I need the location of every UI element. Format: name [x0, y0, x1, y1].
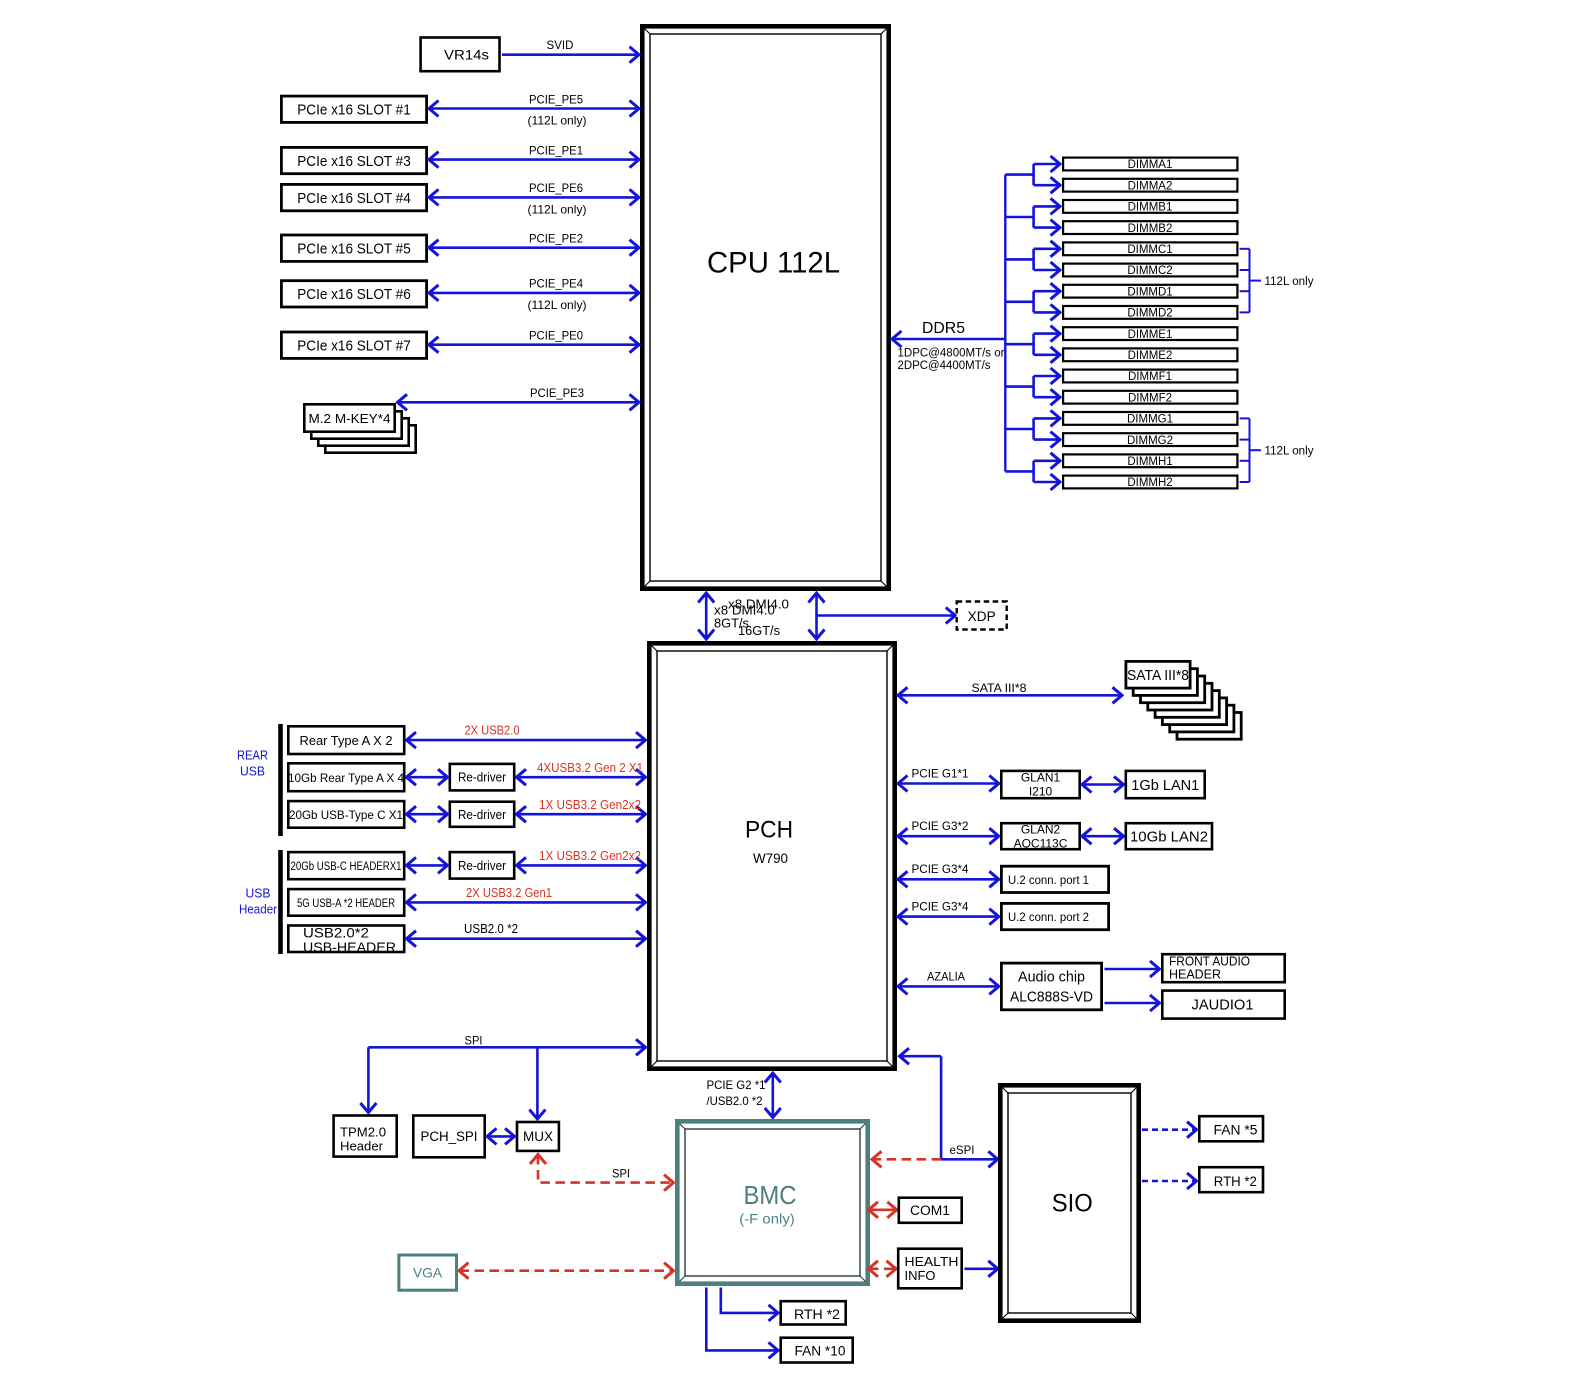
box DIMMA1 [1063, 158, 1237, 171]
svg-text:PCIE G1*1: PCIE G1*1 [912, 766, 969, 780]
box PCIe x16 SLOT #3 [281, 147, 426, 173]
svg-text:SPI: SPI [612, 1167, 630, 1181]
svg-text:REAR: REAR [237, 749, 268, 763]
wire PCIE G3*4 port2 [899, 915, 999, 918]
wire VGA-BMC [460, 1269, 674, 1272]
svg-text:DIMMF2: DIMMF2 [1128, 392, 1172, 404]
wire GLAN1-LAN1 [1083, 783, 1124, 786]
svg-text:PCIe x16 SLOT #5: PCIe x16 SLOT #5 [297, 241, 411, 258]
svg-text:DIMMB1: DIMMB1 [1128, 202, 1173, 214]
svg-text:2X USB2.0: 2X USB2.0 [465, 723, 520, 737]
wire SPI [368, 1046, 645, 1049]
svg-text:AZALIA: AZALIA [927, 969, 965, 983]
svg-text:DIMMG2: DIMMG2 [1127, 435, 1173, 447]
bracket 112L only [1240, 248, 1250, 250]
wire 1X USB3.2 Gen2x2 header [407, 864, 447, 867]
svg-text:DIMMC1: DIMMC1 [1127, 244, 1172, 256]
wire USB2.0 *2 [407, 937, 645, 940]
svg-text:1X USB3.2 Gen2x2: 1X USB3.2 Gen2x2 [539, 849, 641, 863]
svg-text:x8 DMI4.0: x8 DMI4.0 [714, 604, 775, 618]
box DIMMC1 [1063, 242, 1237, 255]
box DIMMC2 [1063, 264, 1237, 277]
svg-text:PCIE_PE2: PCIE_PE2 [529, 232, 583, 246]
svg-text:PCIE G3*4: PCIE G3*4 [912, 862, 969, 876]
svg-text:ALC888S-VD: ALC888S-VD [1010, 990, 1093, 1006]
svg-text:DIMME1: DIMME1 [1128, 329, 1173, 341]
svg-text:GLAN1: GLAN1 [1021, 771, 1061, 785]
box Re-driver 3 [450, 852, 514, 879]
svg-text:PCIE_PE1: PCIE_PE1 [529, 143, 583, 157]
svg-text:DIMMD2: DIMMD2 [1127, 308, 1172, 320]
svg-text:DIMMH2: DIMMH2 [1127, 477, 1172, 489]
svg-text:(112L only): (112L only) [528, 298, 587, 312]
svg-text:Re-driver: Re-driver [458, 771, 506, 785]
svg-text:PCIE_PE0: PCIE_PE0 [529, 329, 583, 343]
svg-text:M.2 M-KEY*4: M.2 M-KEY*4 [309, 411, 391, 426]
svg-text:Rear Type A X 2: Rear Type A X 2 [300, 733, 393, 748]
svg-text:JAUDIO1: JAUDIO1 [1192, 998, 1254, 1014]
svg-text:PCIE_PE6: PCIE_PE6 [529, 181, 583, 195]
wire BMC-RTH*2 [721, 1288, 778, 1313]
svg-text:10Gb Rear Type A X 4: 10Gb Rear Type A X 4 [288, 771, 404, 785]
wire 1X USB3.2 Gen2x2 rear [407, 813, 447, 816]
box 1Gb LAN1 [1126, 771, 1205, 798]
svg-text:HEALTH: HEALTH [905, 1254, 959, 1269]
svg-text:/USB2.0 *2: /USB2.0 *2 [707, 1094, 763, 1108]
box DIMMH2 [1063, 476, 1237, 489]
svg-text:PCIE_PE5: PCIE_PE5 [529, 92, 583, 106]
svg-text:Header: Header [340, 1139, 384, 1154]
svg-text:U.2 conn. port 1: U.2 conn. port 1 [1008, 873, 1089, 887]
wire DIMM pair B branch [1005, 216, 1033, 219]
box GLAN1 I210 [1001, 771, 1079, 798]
box RTH *2 [1199, 1167, 1263, 1192]
box DIMMG2 [1063, 433, 1237, 446]
svg-text:2DPC@4400MT/s: 2DPC@4400MT/s [898, 360, 991, 372]
wire SIO-RTH*2 [1142, 1180, 1196, 1183]
box PCIe x16 SLOT #6 [281, 281, 426, 307]
svg-text:TPM2.0: TPM2.0 [340, 1125, 386, 1140]
box DIMMD2 [1063, 306, 1237, 319]
svg-text:DIMMH1: DIMMH1 [1127, 456, 1172, 468]
svg-text:VGA: VGA [413, 1265, 443, 1280]
svg-text:DIMMC2: DIMMC2 [1127, 265, 1172, 277]
svg-text:10Gb LAN2: 10Gb LAN2 [1130, 829, 1208, 845]
box U.2 conn. port 2 [1001, 903, 1108, 929]
svg-text:CPU 112L: CPU 112L [707, 247, 840, 280]
block CPU 112L [642, 26, 888, 588]
box DIMMD1 [1063, 285, 1237, 298]
box DIMMG1 [1063, 412, 1237, 425]
svg-text:1DPC@4800MT/s or: 1DPC@4800MT/s or [898, 347, 1005, 359]
box Audio chip ALC888S-VD [1001, 963, 1101, 1010]
box FRONT AUDIO HEADER [1162, 954, 1284, 982]
bracket USB Header [278, 850, 283, 954]
wire PCIE_PE6 [430, 196, 639, 199]
wire GLAN2-LAN2 [1083, 835, 1124, 838]
svg-text:W790: W790 [753, 851, 788, 866]
wire PCIE G3*4 port1 [899, 878, 999, 881]
box PCIe x16 SLOT #4 [281, 184, 426, 210]
wire PCIE_PE5 [430, 107, 639, 110]
svg-text:5G USB-A *2 HEADER: 5G USB-A *2 HEADER [297, 896, 395, 910]
wire eSPI BMC red [873, 1158, 942, 1161]
wire PCIE_PE0 [430, 343, 639, 346]
svg-text:MUX: MUX [523, 1129, 553, 1144]
box 5G USB-A *2 HEADER [288, 889, 404, 916]
box DIMMH1 [1063, 454, 1237, 467]
wire PCIE G2 *1 /USB2.0 *2 [771, 1074, 774, 1118]
box XDP [957, 602, 1007, 630]
svg-text:DIMMG1: DIMMG1 [1127, 414, 1173, 426]
wire audio-front [1105, 968, 1160, 971]
box U.2 conn. port 1 [1001, 866, 1108, 892]
box stack SATA III*8 [1177, 713, 1241, 740]
svg-text:USB2.0 *2: USB2.0 *2 [464, 922, 518, 936]
svg-text:XDP: XDP [968, 609, 996, 624]
svg-text:DIMMA2: DIMMA2 [1128, 180, 1173, 192]
wire DDR5 bus [893, 338, 1006, 341]
wire 2X USB3.2 Gen1 [407, 901, 645, 904]
svg-text:(112L only): (112L only) [528, 202, 587, 216]
wire audio-jaudio1 [1105, 1002, 1160, 1005]
wire DIMM pair H branch [1005, 470, 1033, 473]
svg-text:SATA III*8: SATA III*8 [972, 681, 1027, 695]
svg-text:PCIE G2 *1: PCIE G2 *1 [707, 1078, 766, 1092]
svg-text:PCIe x16 SLOT #6: PCIe x16 SLOT #6 [297, 286, 411, 303]
box RTH *2 bottom [781, 1301, 846, 1324]
wire DIMM pair F branch [1005, 385, 1033, 388]
block PCH W790 [649, 643, 894, 1068]
box PCH_SPI [413, 1116, 484, 1158]
box DIMMB1 [1063, 200, 1237, 213]
svg-text:DDR5: DDR5 [922, 320, 965, 337]
wire SVID [502, 53, 639, 56]
svg-text:DIMMD1: DIMMD1 [1127, 286, 1172, 298]
wire PCIE_PE3 [398, 401, 639, 404]
box 10Gb Rear Type A X 4 [288, 763, 404, 791]
svg-text:Re-driver: Re-driver [458, 808, 506, 822]
box DIMMF1 [1063, 370, 1237, 383]
svg-text:DIMME2: DIMME2 [1128, 350, 1173, 362]
svg-text:20Gb USB-C HEADERX1: 20Gb USB-C HEADERX1 [291, 861, 402, 873]
bracket 112L only [1240, 417, 1250, 419]
box 20Gb USB-Type C X1 [288, 801, 404, 828]
wire PCIE_PE1 [430, 158, 639, 161]
svg-text:VR14s: VR14s [444, 47, 489, 63]
box DIMME2 [1063, 348, 1237, 361]
svg-text:SPI: SPI [465, 1034, 483, 1048]
svg-text:FAN *5: FAN *5 [1214, 1122, 1258, 1137]
svg-text:SATA III*8: SATA III*8 [1127, 668, 1189, 684]
svg-text:PCIe x16 SLOT #3: PCIe x16 SLOT #3 [297, 153, 411, 170]
bracket REAR USB [278, 724, 283, 836]
wire PCH_SPI-MUX [488, 1135, 515, 1138]
box JAUDIO1 [1162, 991, 1284, 1019]
box 10Gb LAN2 [1126, 823, 1212, 849]
svg-text:RTH *2: RTH *2 [794, 1306, 840, 1322]
wire PCIE_PE2 [430, 246, 639, 249]
wire DIMM pair E branch [1005, 343, 1033, 346]
svg-text:HEADER: HEADER [1169, 968, 1221, 982]
wire SPI MUX-BMC red [538, 1155, 673, 1183]
box PCIe x16 SLOT #7 [281, 332, 426, 358]
svg-text:I210: I210 [1029, 785, 1053, 799]
block SIO [1000, 1085, 1138, 1320]
svg-text:16GT/s: 16GT/s [738, 624, 780, 638]
box COM1 [899, 1198, 962, 1223]
box VGA [399, 1255, 457, 1290]
wire DIMM pair C branch [1005, 258, 1033, 261]
wire BMC-COM1 [869, 1209, 896, 1212]
svg-text:PCIe x16 SLOT #7: PCIe x16 SLOT #7 [297, 338, 411, 355]
svg-text:RTH *2: RTH *2 [1214, 1174, 1257, 1189]
svg-text:1X USB3.2 Gen2x2: 1X USB3.2 Gen2x2 [539, 798, 641, 812]
svg-text:20Gb USB-Type C X1: 20Gb USB-Type C X1 [289, 808, 403, 822]
svg-text:PCIE G3*4: PCIE G3*4 [912, 900, 969, 914]
svg-text:eSPI: eSPI [950, 1143, 975, 1157]
box DIMME1 [1063, 327, 1237, 340]
svg-text:PCIE G3*2: PCIE G3*2 [912, 819, 969, 833]
svg-text:BMC: BMC [744, 1180, 797, 1210]
box stack M.2 M-KEY*4 [325, 425, 415, 452]
wire PCIE_PE4 [430, 292, 639, 295]
svg-text:SIO: SIO [1052, 1190, 1093, 1218]
box USB2.0*2 USB-HEADER [288, 926, 404, 953]
svg-text:DIMMB2: DIMMB2 [1128, 223, 1173, 235]
wire XDP link [817, 614, 955, 617]
wire DDR5 trunk [1004, 175, 1006, 472]
box HEALTH INFO [898, 1249, 962, 1289]
svg-text:SVID: SVID [547, 38, 574, 52]
box DIMMF2 [1063, 391, 1237, 404]
wire SPI to TPM [367, 1047, 370, 1112]
svg-text:112L only: 112L only [1265, 276, 1314, 288]
svg-text:Header: Header [239, 903, 277, 917]
svg-text:USB: USB [246, 887, 271, 901]
svg-text:GLAN2: GLAN2 [1021, 823, 1061, 837]
wire 2X USB2.0 [407, 739, 645, 742]
svg-text:Audio chip: Audio chip [1018, 970, 1085, 986]
wire DMI right [815, 594, 818, 639]
wire SATA III*8 [899, 694, 1122, 697]
svg-text:PCIE_PE3: PCIE_PE3 [530, 386, 584, 400]
box MUX [517, 1122, 559, 1151]
svg-text:112L only: 112L only [1265, 445, 1314, 457]
wire SIO-FAN*5 [1142, 1128, 1196, 1131]
svg-text:PCIe x16 SLOT #4: PCIe x16 SLOT #4 [297, 190, 411, 207]
wire HEALTH-SIO [965, 1268, 998, 1271]
wire DIMM pair G branch [1005, 428, 1033, 431]
svg-text:1Gb LAN1: 1Gb LAN1 [1131, 778, 1199, 794]
box PCIe x16 SLOT #5 [281, 235, 426, 261]
svg-text:(-F only): (-F only) [739, 1211, 795, 1227]
box 20Gb USB-C HEADERX1 [288, 852, 404, 879]
wire eSPI [900, 1055, 941, 1058]
svg-text:INFO: INFO [905, 1268, 936, 1283]
svg-text:Re-driver: Re-driver [458, 859, 506, 873]
svg-text:PCIe x16 SLOT #1: PCIe x16 SLOT #1 [297, 102, 411, 119]
box VR14s [421, 38, 500, 72]
svg-text:2X USB3.2 Gen1: 2X USB3.2 Gen1 [466, 886, 552, 900]
wire BMC-FAN*10 [706, 1288, 777, 1351]
wire PCIE G3*2 [899, 835, 999, 838]
svg-text:DIMMA1: DIMMA1 [1128, 159, 1173, 171]
svg-text:PCH_SPI: PCH_SPI [421, 1129, 478, 1144]
wire DIMM pair A branch [1005, 173, 1033, 176]
box TPM2.0 Header [334, 1116, 397, 1157]
wire PCIE G1*1 [899, 782, 999, 785]
box Re-driver 1 [450, 764, 514, 791]
svg-text:FRONT AUDIO: FRONT AUDIO [1169, 955, 1250, 969]
box Re-driver 2 [450, 802, 514, 827]
svg-text:PCH: PCH [745, 817, 793, 844]
svg-text:DIMMF1: DIMMF1 [1128, 371, 1172, 383]
svg-text:FAN *10: FAN *10 [795, 1342, 846, 1358]
wire AZALIA [899, 985, 999, 988]
wire BMC-HEALTH red [869, 1268, 896, 1271]
box PCIe x16 SLOT #1 [281, 96, 426, 122]
wire 4XUSB3.2 Gen 2 X1 [407, 776, 447, 779]
svg-text:USB: USB [240, 765, 265, 779]
box DIMMA2 [1063, 179, 1237, 192]
svg-text:COM1: COM1 [910, 1203, 950, 1218]
box GLAN2 AQC113C [1001, 823, 1079, 849]
svg-text:U.2 conn. port 2: U.2 conn. port 2 [1008, 910, 1089, 924]
wire SPI to MUX [536, 1047, 539, 1118]
box FAN *10 [781, 1338, 853, 1363]
svg-text:USB-HEADER: USB-HEADER [303, 939, 396, 955]
block BMC (-F only) [677, 1121, 867, 1283]
box DIMMB2 [1063, 221, 1237, 234]
svg-text:AQC113C: AQC113C [1014, 837, 1068, 851]
svg-text:PCIE_PE4: PCIE_PE4 [529, 277, 583, 291]
wire DMI left [705, 594, 708, 639]
svg-text:4XUSB3.2 Gen 2 X1: 4XUSB3.2 Gen 2 X1 [537, 761, 643, 775]
svg-text:(112L only): (112L only) [528, 114, 587, 128]
wire DIMM pair D branch [1005, 300, 1033, 303]
box FAN *5 [1199, 1116, 1263, 1141]
box Rear Type A X 2 [288, 726, 404, 754]
